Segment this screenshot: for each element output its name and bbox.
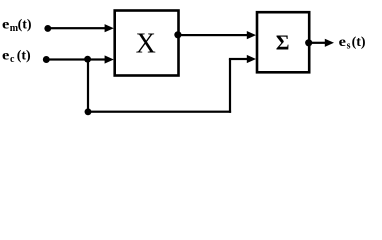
wire: e_c(t) to multiplier input [46, 58, 106, 60]
svg-text:e: e [339, 34, 347, 50]
wire: bottom horizontal run [87, 111, 231, 113]
arrowhead into multiplier top input [105, 24, 114, 32]
svg-text:X: X [136, 29, 156, 60]
wire: multiplier output to summer top input [178, 34, 248, 36]
summer block Sigma [257, 12, 309, 72]
wire: branch from e_c junction down [87, 59, 89, 113]
svg-text:(t): (t) [17, 49, 31, 64]
svg-text:(t): (t) [18, 18, 32, 33]
svg-text:c: c [10, 54, 15, 65]
arrowhead into multiplier bottom input [105, 55, 114, 63]
label e_c(t) [2, 48, 31, 65]
svg-text:s: s [347, 41, 351, 52]
wire: riser up to summer bottom input [229, 59, 231, 113]
node: multiplier output [174, 31, 181, 38]
arrowhead into summer bottom input [247, 55, 256, 63]
arrowhead into summer top input [247, 31, 256, 39]
wire: riser top to summer bottom input [229, 58, 248, 60]
svg-text:Σ: Σ [276, 31, 290, 55]
wire: summer output to e_s(t) [309, 42, 327, 44]
label e_m(t) [2, 17, 32, 34]
node: e_m input terminal [44, 25, 51, 32]
multiplier block X [115, 11, 179, 76]
wire: e_m(t) to multiplier input [48, 27, 107, 29]
node: e_c input terminal [43, 56, 50, 63]
node: junction at bottom corner [85, 108, 92, 115]
svg-text:(t): (t) [352, 35, 366, 50]
label e_s(t) [339, 34, 366, 51]
svg-text:e: e [2, 48, 10, 64]
node: junction on e_c wire [84, 56, 91, 63]
svg-text:e: e [2, 17, 10, 33]
node: summer output [305, 39, 312, 46]
arrowhead at output [325, 39, 334, 47]
